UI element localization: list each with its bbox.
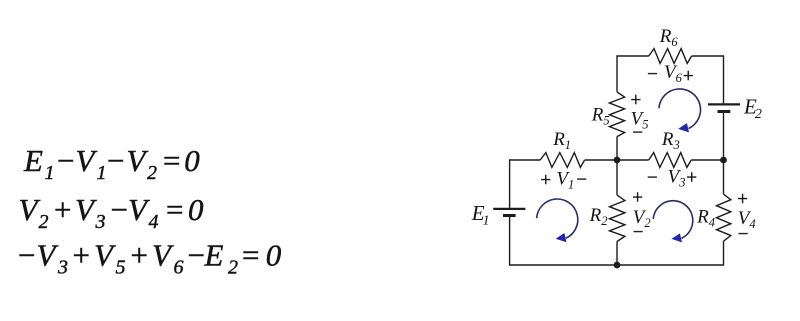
- label + V1 -: [539, 168, 588, 191]
- wire E1 bottom to bottom mid node: [510, 217, 617, 265]
- node junction right: [720, 157, 727, 164]
- loop current arrow middle: [653, 201, 693, 242]
- svg-text:+: +: [685, 167, 698, 188]
- resistor R6: [649, 26, 692, 63]
- svg-text:+: +: [736, 189, 749, 210]
- wire E2 bottom to right mid node: [723, 113, 725, 160]
- wire top-right corner (R6 right to E2 top): [692, 56, 724, 103]
- svg-text:−: −: [575, 170, 588, 191]
- label - V6 +: [646, 62, 695, 87]
- node junction mid: [614, 157, 621, 164]
- wire right mid node to R4 top: [723, 160, 725, 194]
- resistor R1: [540, 129, 584, 168]
- wire bottom-right corner (bottom node to R4 bottom): [617, 241, 724, 265]
- label - V3 +: [646, 166, 698, 189]
- svg-text:−: −: [631, 122, 644, 143]
- wire mid node to R3 left: [617, 159, 649, 161]
- label + V5 -: [629, 90, 648, 144]
- wire R5 bottom to mid node: [616, 137, 618, 160]
- resistor R2: [589, 195, 625, 241]
- KVL equation loop 1: [23, 143, 200, 184]
- loop current arrow left: [537, 199, 578, 242]
- wire R3 right to right mid node: [691, 159, 723, 161]
- KVL equation loop 2: [19, 192, 205, 233]
- node junction bottom: [614, 262, 621, 269]
- battery E2: [708, 95, 762, 123]
- wire mid-left corner (R1 left to E1 top): [510, 160, 541, 208]
- resistor R4: [696, 194, 731, 241]
- svg-text:−: −: [736, 224, 749, 245]
- KVL equation loop 3: [16, 238, 282, 279]
- svg-text:+: +: [539, 170, 552, 191]
- resistor R5: [591, 92, 625, 137]
- svg-text:−: −: [631, 222, 644, 243]
- resistor R3: [649, 129, 692, 168]
- battery E1: [471, 201, 526, 229]
- wire mid node down to R2 top: [616, 160, 618, 195]
- wire top-left corner (R5 top to R6 left): [617, 56, 649, 92]
- label + V4 -: [736, 189, 756, 245]
- wire R1 right to mid node: [585, 159, 617, 161]
- wire R2 bottom to bottom mid node: [616, 242, 618, 266]
- label + V2 -: [631, 188, 651, 244]
- svg-text:+: +: [629, 90, 642, 111]
- svg-text:−: −: [646, 167, 659, 188]
- svg-text:+: +: [682, 66, 695, 87]
- loop current arrow upper: [659, 89, 701, 132]
- svg-text:−: −: [646, 64, 659, 85]
- svg-text:+: +: [631, 188, 644, 209]
